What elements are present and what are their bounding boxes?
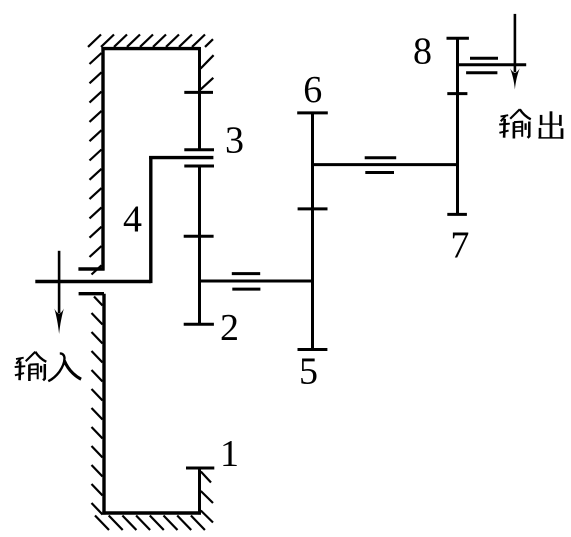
frame left wall upper foot <box>78 267 104 270</box>
mesh bar lower (2-5) <box>232 288 260 291</box>
frame left wall lower foot <box>79 292 104 295</box>
text INPUT (shu ru) <box>15 352 81 381</box>
arm 4 vertical leg <box>149 156 152 283</box>
top-right fixture hatching <box>201 55 214 89</box>
gear 7 bottom rim tick <box>447 213 467 216</box>
frame top wall hatching <box>88 35 213 47</box>
output shaft horizontal <box>458 63 527 66</box>
svg-text:3: 3 <box>225 120 244 162</box>
gear 5 bottom rim tick <box>298 348 328 351</box>
svg-text:2: 2 <box>220 307 239 349</box>
gear 8 top rim tick <box>447 37 469 40</box>
top-right fixture vertical (gear 2-3 shaft upper part) <box>198 47 201 150</box>
input arrow head <box>54 309 64 335</box>
text OUTPUT (shu chu) <box>499 109 562 139</box>
frame left wall upper <box>101 47 104 271</box>
mesh bar upper (6-7) <box>365 156 397 159</box>
frame bottom wall hatching <box>95 516 205 531</box>
mesh bar lower (8-output) <box>466 71 497 74</box>
input arrow line <box>58 251 61 313</box>
input shaft <box>35 280 151 283</box>
svg-text:1: 1 <box>220 433 239 475</box>
frame top wall <box>102 47 201 50</box>
frame left wall lower hatching <box>92 297 103 515</box>
output arrow line <box>514 14 517 72</box>
svg-text:5: 5 <box>299 351 318 393</box>
svg-text:6: 6 <box>303 69 322 111</box>
gear 6 lower rim tick <box>298 207 328 210</box>
gear 2 upper rim tick <box>184 235 214 238</box>
mesh bar upper (2-5) <box>232 272 260 275</box>
gear 3 upper bar <box>184 148 214 151</box>
gear 1 (fixed) body line <box>198 468 201 515</box>
gear 1 hatching <box>201 472 213 523</box>
svg-text:4: 4 <box>123 199 142 241</box>
frame bottom wall <box>102 511 201 514</box>
svg-text:7: 7 <box>450 225 469 267</box>
shaft 2-to-5 horizontal <box>200 280 313 283</box>
arm 4 horizontal <box>149 156 213 159</box>
gear 5-6 shaft vertical <box>311 113 314 350</box>
svg-text:8: 8 <box>413 31 432 73</box>
gear 8 lower rim tick <box>447 92 467 95</box>
top-right fixture rim tick <box>184 91 213 94</box>
gear 2-3 shaft lower part (gear 2 body) <box>198 166 201 324</box>
gear 3 lower bar <box>184 165 214 168</box>
frame left wall upper hatching <box>90 53 102 275</box>
output arrow head <box>510 68 520 89</box>
mesh bar lower (6-7) <box>365 171 394 174</box>
gear 2 lower rim tick <box>184 323 214 326</box>
frame left wall lower <box>102 294 105 515</box>
gear 7-8 shaft vertical <box>456 38 459 214</box>
gear 1 rim tick <box>186 467 214 470</box>
gear 6 top rim tick <box>297 111 328 114</box>
mesh bar upper (8-output) <box>470 57 498 60</box>
shaft 6-to-7 horizontal <box>313 163 458 166</box>
